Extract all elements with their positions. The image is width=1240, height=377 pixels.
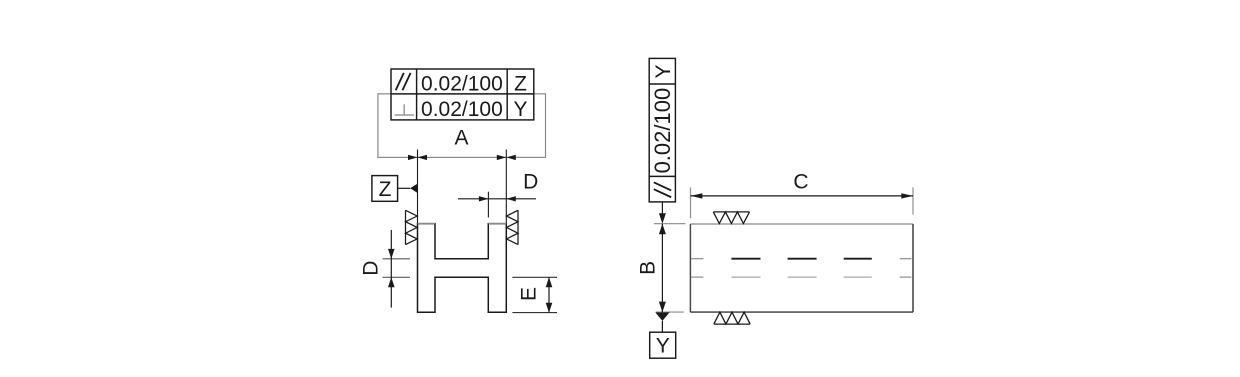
svg-text:Z: Z: [514, 73, 527, 96]
svg-text:0.02/100: 0.02/100: [421, 73, 503, 96]
svg-text:Y: Y: [652, 64, 675, 78]
svg-text:Z: Z: [379, 178, 392, 201]
svg-text:Y: Y: [656, 334, 670, 357]
svg-text:0.02/100: 0.02/100: [650, 88, 675, 174]
svg-text:D: D: [523, 170, 538, 193]
svg-text:E: E: [518, 287, 541, 301]
svg-text:A: A: [454, 127, 468, 150]
svg-text:D: D: [360, 261, 383, 276]
svg-text:B: B: [637, 261, 660, 275]
svg-text:0.02/100: 0.02/100: [421, 98, 503, 121]
svg-text:C: C: [793, 171, 808, 194]
svg-text:Y: Y: [513, 98, 527, 121]
